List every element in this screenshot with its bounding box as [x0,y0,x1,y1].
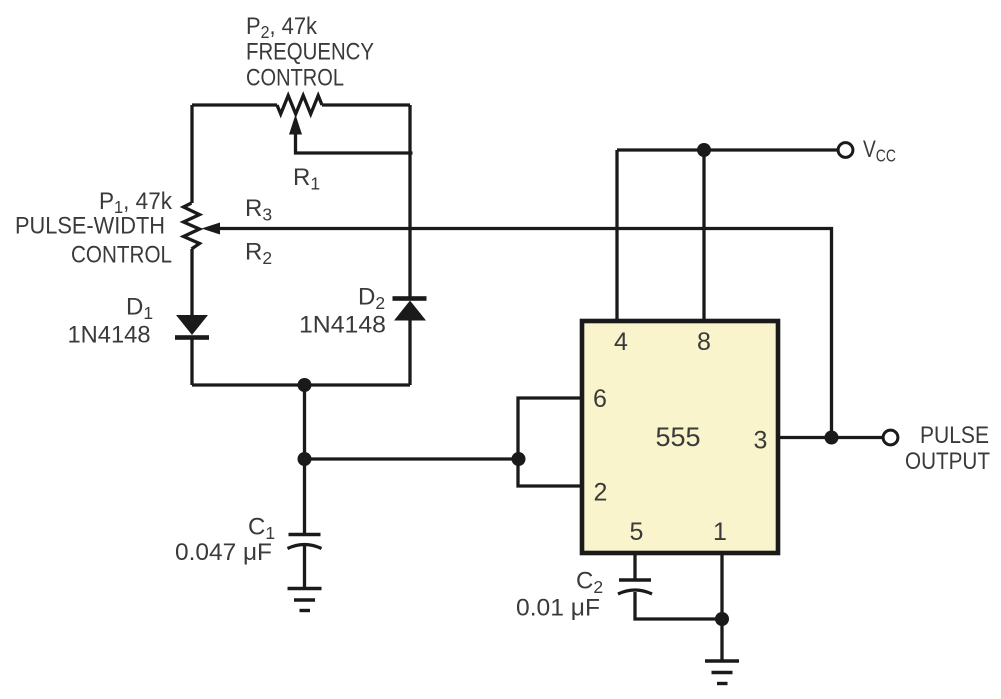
svg-text:1N4148: 1N4148 [299,312,386,339]
P1 wiper arrowhead [202,223,221,235]
junction node dot (ground C2) [715,612,729,626]
svg-text:1: 1 [713,518,727,546]
svg-text:0.01 μF: 0.01 μF [516,595,600,622]
svg-text:PULSE: PULSE [920,422,989,449]
wire C1 bottom lead [303,546,306,588]
wire pin1 vertical [720,553,723,661]
svg-text:0.047 μF: 0.047 μF [175,539,272,566]
svg-text:D2: D2 [358,284,385,314]
junction node dot (trigger/threshold) [298,452,312,466]
wire left vertical lower [190,336,193,385]
wire P2 wiper stem [296,132,413,153]
wire Vcc horizontal [617,148,838,151]
wire pin5 lead [633,553,636,579]
svg-text:3: 3 [754,427,768,455]
wire top loop right horizontal [322,103,410,106]
wire pin4 vertical [615,150,618,321]
svg-text:CONTROL: CONTROL [246,65,344,92]
junction node dot (output) [825,431,839,445]
terminal Vcc [838,143,853,158]
wire top loop left horizontal [192,103,277,106]
svg-text:R3: R3 [245,195,272,225]
svg-text:CONTROL: CONTROL [71,242,172,269]
svg-text:D1: D1 [126,294,153,324]
wire pin3 output [778,436,882,439]
wire C2 bottom lead [635,592,722,619]
P2 wiper arrowhead [289,115,302,135]
svg-text:PULSE-WIDTH: PULSE-WIDTH [15,213,165,240]
wire left vertical middle [190,249,193,315]
wire pin6 pin2 loop [518,398,582,486]
svg-text:R1: R1 [293,164,320,194]
svg-text:5: 5 [630,518,644,546]
svg-text:555: 555 [655,422,700,452]
diode D2 [393,296,427,320]
ground symbol C1 [288,589,322,611]
terminal pulse output [883,430,898,445]
junction node dot (Vcc rail) [697,143,711,157]
wire right vertical lower [408,320,411,385]
ground symbol C2 [705,661,739,684]
diode D1 [175,315,209,340]
capacitor C2 bottom plate arc [618,590,652,594]
svg-text:1N4148: 1N4148 [68,322,151,349]
svg-text:OUTPUT: OUTPUT [905,448,990,475]
capacitor C2 top plate [619,578,651,582]
svg-text:8: 8 [697,328,711,356]
wire C1 top lead [303,459,306,534]
svg-text:6: 6 [593,385,607,413]
potentiometer P1 resistor body [184,203,200,249]
wire node to pin 2-6 loop [305,457,519,460]
svg-text:C2: C2 [576,568,603,598]
svg-text:VCC: VCC [863,136,896,166]
wire bottom loop horizontal [192,383,410,386]
potentiometer P2 resistor body [277,96,322,115]
wire P1 wiper to R3 line [218,229,832,432]
svg-text:4: 4 [614,328,628,356]
svg-text:FREQUENCY: FREQUENCY [246,39,374,66]
wire pin8 vertical [702,150,705,321]
svg-text:R2: R2 [245,239,272,269]
capacitor C1 bottom plate arc [288,545,322,549]
555 timer U1 body [582,321,778,553]
wire left vertical upper [190,105,193,203]
capacitor C1 top plate [289,533,321,537]
junction node dot (bottom loop) [298,378,312,392]
wire right vertical upper [408,105,411,298]
wire center vertical to node [303,385,306,459]
svg-text:2: 2 [594,479,608,507]
junction node dot (pin2-6 loop) [512,452,526,466]
